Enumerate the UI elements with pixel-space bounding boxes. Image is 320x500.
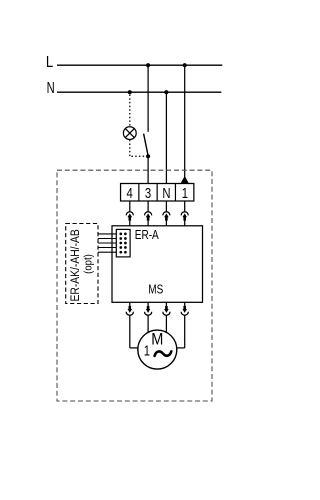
lamp E1 circle [123,127,136,140]
junction on L at switch wire [146,63,150,67]
svg-text:4: 4 [127,185,133,202]
terminal block X1 [121,184,194,202]
plug-socket pair terminal1 to MS [181,201,188,226]
plug-socket pair MS to motor wire1 [126,302,133,348]
dotted wire lamp to pivot (horizontal) [132,155,147,157]
svg-text:1: 1 [182,185,188,202]
junction on L at terminal-1 wire [183,63,187,67]
svg-text:1: 1 [144,342,150,359]
control unit MS box [112,226,203,302]
dashed enclosure (actuator unit) [57,170,212,401]
svg-text:(opt): (opt) [83,254,95,274]
plug-socket pair terminal4 to MS [126,201,133,226]
lamp E1 cross [125,129,134,138]
motor M1 circle [138,330,177,369]
arrowhead at terminal 1 [181,176,189,183]
motor label ~ [155,351,172,356]
terminal divider 4|3 [138,184,140,202]
svg-text:N: N [162,185,170,202]
svg-text:MS: MS [148,282,163,297]
svg-text:ER-AK/-AH/-AB: ER-AK/-AH/-AB [70,229,83,301]
terminal divider N|1 [174,184,176,202]
svg-text:L: L [46,54,53,71]
wire opt bus 3 [98,242,121,244]
junction at switch pivot [146,154,150,158]
svg-text:ER-A: ER-A [135,228,159,243]
plug-socket pair terminal3 to MS [145,201,152,226]
switch S lever [144,134,148,156]
svg-text:N: N [47,79,55,96]
connector header ER-A [116,229,130,257]
svg-text:M: M [151,331,163,349]
wire motor right horizontal [176,347,184,349]
plug-socket pair MS to motor wire3 [163,302,170,332]
wire from L to switch top [147,65,149,132]
plug-socket pair MS to motor wire4 [181,302,188,348]
junction on N at lamp wire [128,90,132,94]
junction on N at terminal-N wire [164,90,168,94]
terminal divider 3|N [156,184,158,202]
dotted wire N to lamp [129,95,131,127]
wire from N to terminal N [165,92,167,183]
wire opt bus 4 [98,247,121,249]
optional module box ER-AK/-AH/-AB [66,224,98,304]
dotted wire lamp to pivot (vertical) [129,140,131,157]
svg-text:3: 3 [145,185,151,202]
wire opt bus 5 [98,251,121,253]
wire switch pivot to terminal 3 [147,156,149,183]
wire opt bus 2 [98,238,121,240]
plug-socket pair MS to motor wire2 [145,302,152,332]
wire motor left horizontal [130,347,139,349]
wire from L to terminal 1 [184,65,186,177]
plug-socket pair terminalN to MS [163,201,170,226]
wire N line [57,91,221,93]
wire L line [57,64,222,66]
wire opt bus 1 [98,233,121,235]
